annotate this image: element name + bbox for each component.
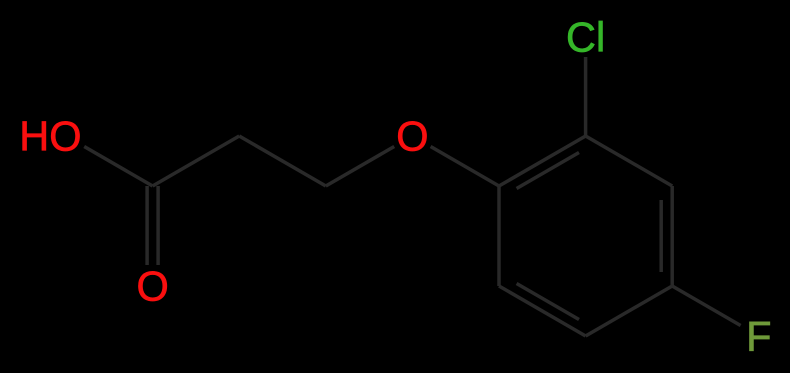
svg-text:O: O — [136, 263, 168, 310]
svg-text:F: F — [746, 313, 771, 360]
svg-text:HO: HO — [19, 113, 81, 160]
svg-text:Cl: Cl — [566, 14, 605, 61]
svg-text:O: O — [396, 113, 428, 160]
